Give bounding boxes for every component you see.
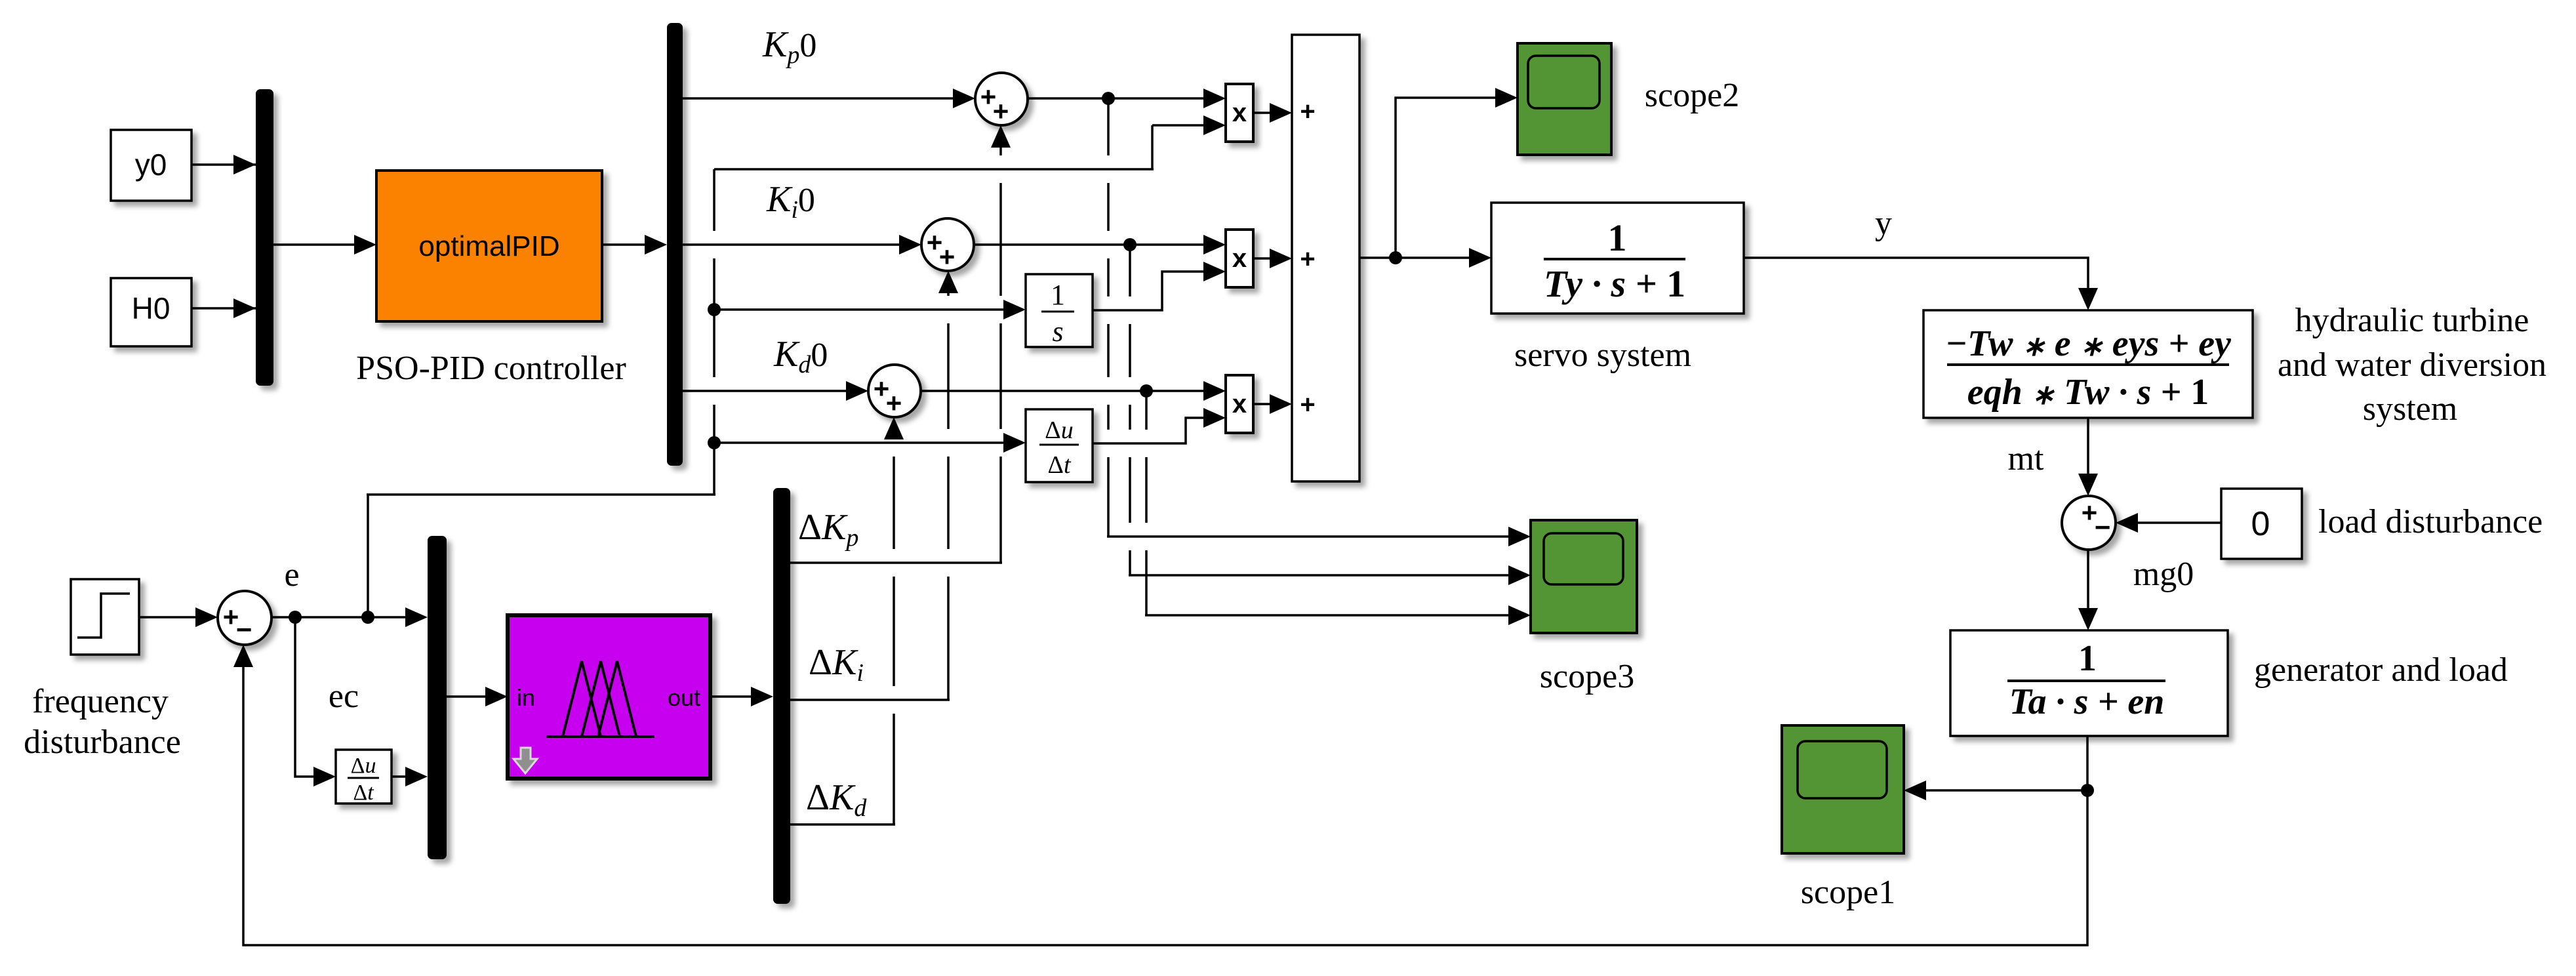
svg-text:y0: y0 <box>135 148 167 182</box>
wire y0 to mux <box>191 163 256 166</box>
crossing halos <box>695 231 735 258</box>
wire e branch to du/dt <box>714 441 1007 444</box>
constant block y0 <box>111 130 191 201</box>
wire: dKd vertical up to Kd sum <box>893 439 895 824</box>
wire: Kp branch vertical to scope3 <box>1107 98 1110 537</box>
wire adder out to servo <box>1359 256 1473 259</box>
derivative block du/dt (ec) <box>336 750 392 803</box>
svg-text:Ki0: Ki0 <box>766 179 815 224</box>
wire: dKi vertical up to Ki sum <box>947 293 950 700</box>
constant block H0 <box>111 278 191 346</box>
svg-text:x: x <box>1232 98 1247 127</box>
svg-text:Δt: Δt <box>1048 451 1072 479</box>
wire: e feedforward verticals <box>713 169 715 495</box>
svg-text:ec: ec <box>329 678 359 715</box>
arrowheads <box>233 155 256 174</box>
wire optimalPID to demux <box>602 243 648 246</box>
svg-text:1: 1 <box>2078 638 2097 679</box>
svg-text:PSO-PID controller: PSO-PID controller <box>356 350 626 387</box>
svg-text:load disturbance: load disturbance <box>2318 503 2543 540</box>
svg-text:0: 0 <box>2251 505 2270 543</box>
wire scope3 input 3 horizontal <box>1145 614 1512 617</box>
mux2 bar (e,ec) <box>428 536 447 859</box>
svg-text:+: + <box>1300 97 1315 126</box>
sum circle load <box>2062 496 2116 550</box>
wire du/dt out to mux2 <box>392 775 409 778</box>
svg-text:+: + <box>993 96 1009 127</box>
wire scope3 input 2 horizontal <box>1129 574 1512 577</box>
scope2 block <box>1518 43 1611 155</box>
svg-text:mg0: mg0 <box>2133 556 2194 593</box>
svg-text:+: + <box>939 241 956 272</box>
svg-text:out: out <box>668 684 700 711</box>
wire X1 out to adder <box>1253 112 1274 114</box>
svg-text:disturbance: disturbance <box>24 723 181 761</box>
wire Ki sum to product X2 <box>974 243 1207 246</box>
wire dKi horizontal <box>790 699 950 701</box>
demux bar (PID gains) <box>667 23 683 466</box>
sum circle error <box>218 591 272 645</box>
wire FPID to demux2 <box>710 695 755 698</box>
svg-text:H0: H0 <box>132 291 171 325</box>
demux2 bar (dK outputs) <box>773 488 790 904</box>
svg-text:−: − <box>236 614 252 645</box>
wire e branch to 1/s <box>714 308 1007 311</box>
svg-text:scope2: scope2 <box>1645 77 1739 114</box>
svg-text:Δu: Δu <box>351 754 376 778</box>
wire dKd horizontal <box>790 823 895 826</box>
wire branch to scope2 <box>1396 98 1499 258</box>
svg-text:+: + <box>1300 390 1315 419</box>
wire: dKp vertical up to Kp sum <box>999 148 1002 563</box>
wire step to error sum <box>139 616 199 619</box>
wire Kd0 <box>683 390 851 392</box>
junction dots <box>1102 92 1115 105</box>
svg-text:x: x <box>1232 244 1247 273</box>
wire mg0: sum to generator <box>2087 550 2089 612</box>
svg-text:y: y <box>1875 205 1892 242</box>
svg-text:mt: mt <box>2008 440 2044 478</box>
wire y: servo to hydraulic <box>1744 258 2088 292</box>
wire mt: hydraulic to load sum <box>2087 418 2089 478</box>
wire X3 out to adder <box>1253 403 1274 405</box>
load disturbance constant block <box>2221 489 2302 559</box>
wire du/dt out to X3 lower input <box>1093 418 1207 443</box>
sum circle Kd <box>868 365 921 417</box>
svg-text:in: in <box>517 684 535 711</box>
svg-text:scope1: scope1 <box>1801 874 1895 911</box>
svg-text:s: s <box>1052 315 1063 348</box>
wire 1/s out to X2 lower input <box>1093 272 1207 310</box>
sum circle Ki <box>921 218 974 271</box>
product block X3 <box>1226 375 1253 433</box>
product block X2 <box>1226 230 1253 287</box>
svg-text:optimalPID: optimalPID <box>418 230 559 262</box>
wire e up-branch horizontals <box>367 495 369 617</box>
wire ec branch to du/dt <box>295 617 317 777</box>
svg-text:scope3: scope3 <box>1540 658 1634 695</box>
generator block <box>1950 630 2228 736</box>
svg-text:generator and load: generator and load <box>2254 651 2508 689</box>
fuzzy membership triangles <box>546 735 654 738</box>
scope3 block <box>1531 520 1637 633</box>
mux bar (y0,H0) <box>256 89 273 386</box>
wire scope3 input 1 horizontal <box>1107 535 1512 538</box>
step block frequency disturbance <box>71 579 139 655</box>
svg-text:hydraulic turbine: hydraulic turbine <box>2295 302 2529 339</box>
wire Kd sum to product X3 <box>921 390 1207 392</box>
integrator block 1/s <box>1026 274 1093 347</box>
wire dKp horizontal <box>790 561 1002 564</box>
FPID gray drop arrow <box>513 748 537 773</box>
wire e: error sum to mux2 <box>272 616 409 619</box>
svg-text:and water diversion: and water diversion <box>2278 346 2546 384</box>
step symbol <box>77 594 130 638</box>
svg-text:+: + <box>886 388 902 418</box>
svg-text:ΔKi: ΔKi <box>809 642 864 687</box>
wire Ki0 <box>683 243 904 246</box>
wire: Ki branch vertical to scope3 <box>1129 245 1131 575</box>
svg-text:1: 1 <box>1051 279 1065 311</box>
svg-text:x: x <box>1232 390 1247 418</box>
wire Kp0 <box>683 97 957 100</box>
derivative block du/dt <box>1026 409 1093 482</box>
svg-text:system: system <box>2363 390 2457 428</box>
optimalPID block <box>376 171 602 321</box>
svg-text:−: − <box>2095 512 2111 542</box>
servo system block <box>1491 203 1744 314</box>
wire load constant to sum <box>2134 521 2221 524</box>
wire H0 to mux <box>191 307 256 310</box>
sum circle Kp <box>975 73 1028 125</box>
svg-text:eqh ∗ Tw · s + 1: eqh ∗ Tw · s + 1 <box>1967 372 2209 413</box>
svg-text:servo system: servo system <box>1514 336 1691 374</box>
FPID fuzzy controller block <box>508 615 710 779</box>
svg-text:frequency: frequency <box>32 683 169 720</box>
hydraulic turbine block <box>1923 310 2253 418</box>
wire branch to scope1 <box>1922 789 2087 792</box>
svg-text:Δu: Δu <box>1045 417 1073 444</box>
wire generator out / feedback loop <box>243 664 2087 945</box>
svg-text:Ta · s + en: Ta · s + en <box>2009 681 2165 722</box>
wire: Kd branch vertical to scope3 <box>1145 391 1148 615</box>
svg-text:Δt: Δt <box>353 781 374 805</box>
svg-text:+: + <box>1300 245 1315 274</box>
wire mux to optimalPID <box>273 243 357 246</box>
adder block <box>1292 35 1359 481</box>
product block X1 <box>1226 84 1253 142</box>
svg-text:e: e <box>284 556 299 594</box>
svg-text:Ty · s + 1: Ty · s + 1 <box>1544 262 1685 305</box>
scope1 block <box>1782 725 1904 853</box>
wire Kp sum to product X1 <box>1028 97 1207 100</box>
svg-text:1: 1 <box>1608 216 1627 259</box>
wire X2 out to adder <box>1253 257 1274 260</box>
wire mux2 to FPID <box>447 695 489 698</box>
